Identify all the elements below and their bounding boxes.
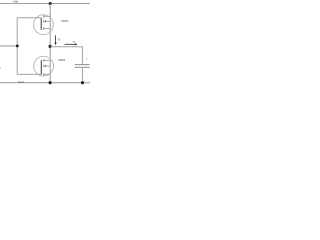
svg-text:iD: iD bbox=[58, 38, 61, 41]
junction dot capacitor on ground rail bbox=[81, 81, 84, 84]
wire: input vertical riser bbox=[16, 18, 18, 75]
junction dot input node bbox=[16, 45, 19, 48]
power rail VDD bbox=[0, 3, 90, 5]
current arrow iD bbox=[55, 35, 57, 45]
svg-text:NMOS: NMOS bbox=[58, 60, 65, 62]
wire: output horizontal to capacitor bbox=[50, 46, 82, 48]
svg-text:PMOS: PMOS bbox=[62, 21, 69, 23]
svg-text:Vdd: Vdd bbox=[13, 0, 19, 4]
wire: gate lead M1 bbox=[17, 17, 41, 19]
junction dot M2 source on ground rail bbox=[49, 81, 52, 84]
transistor M2 (NMOS) bbox=[34, 56, 54, 76]
wire: gate lead M2 bbox=[17, 73, 41, 75]
junction dot on VDD rail bbox=[49, 2, 52, 5]
junction dot output node bbox=[49, 45, 52, 48]
svg-text:Gnd: Gnd bbox=[18, 80, 24, 84]
wire: vertical drain/source spine M1-M2 (x=50.2) bbox=[49, 4, 51, 83]
ground rail bbox=[0, 82, 90, 84]
wire: capacitor top lead bbox=[81, 47, 83, 65]
wire: capacitor bottom lead bbox=[81, 67, 83, 82]
capacitor C1 bbox=[75, 65, 90, 68]
arrow vO (output designation) bbox=[65, 43, 78, 45]
wire: input horizontal (vI) bbox=[0, 45, 17, 47]
transistor M1 (PMOS) bbox=[34, 15, 54, 35]
